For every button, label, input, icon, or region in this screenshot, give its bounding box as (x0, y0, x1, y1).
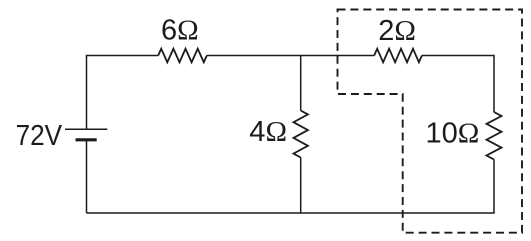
wire 6ohm to 2ohm (207, 55, 374, 57)
svg-text:4Ω: 4Ω (249, 116, 287, 148)
wire battery bottom lead (86, 141, 88, 213)
resistor R 2ohm (374, 49, 422, 63)
resistor R 4ohm (294, 111, 308, 158)
svg-text:10Ω: 10Ω (426, 118, 480, 150)
svg-text:6Ω: 6Ω (161, 15, 199, 47)
battery V1 positive plate (65, 128, 107, 130)
svg-text:2Ω: 2Ω (378, 15, 416, 47)
wire 2ohm to right top corner (422, 56, 494, 113)
dashed boundary box (338, 10, 523, 233)
svg-text:72V: 72V (16, 120, 63, 152)
resistor R 6ohm (158, 49, 207, 63)
wire 10ohm to bottom wire (87, 160, 495, 214)
wire 4ohm top lead (300, 56, 302, 111)
wire top-left to 6ohm (87, 56, 159, 130)
battery V1 negative plate (76, 138, 97, 141)
resistor R 10ohm (487, 112, 502, 160)
wire 4ohm bottom lead (300, 158, 302, 214)
